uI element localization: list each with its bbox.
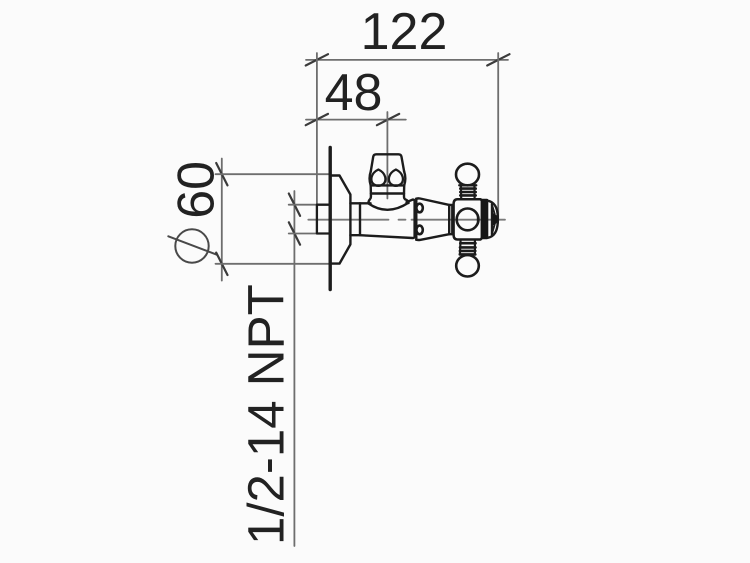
tick top of thread callout [289, 194, 300, 216]
handle hub block [454, 199, 484, 239]
tick right of 48 [377, 114, 399, 125]
extension line dia60 top [216, 173, 331, 175]
dimension 48 line [306, 119, 406, 121]
handle bottom neck sides [460, 240, 475, 255]
bonnet ring face [415, 199, 417, 240]
neck between flange and body [350, 203, 360, 235]
tick bottom of thread callout [289, 222, 300, 244]
tick left of 122 [306, 54, 328, 65]
handle bottom neck ribs [460, 243, 476, 254]
aerator left side bulge [370, 171, 371, 185]
tick top of dia60 [216, 163, 227, 185]
bonnet end washer [449, 205, 452, 234]
handle top neck sides [461, 185, 475, 198]
screw bottom [416, 226, 422, 235]
extension line dia60 bottom [216, 263, 332, 265]
svg-text:1/2-14 NPT: 1/2-14 NPT [238, 284, 295, 545]
handle cap dark band [481, 199, 489, 240]
handle cap dome inner line [491, 204, 493, 235]
extension line pipe bottom [289, 233, 317, 235]
svg-text:48: 48 [325, 64, 383, 122]
aerator collar [371, 185, 405, 193]
handle front boss circle [457, 209, 479, 231]
aerator bell flare [368, 194, 408, 210]
tick left of 48 [306, 114, 328, 125]
valve body taper [360, 200, 415, 238]
centerline [308, 219, 505, 221]
extension line aerator axis [386, 112, 388, 199]
thread callout leader line [293, 191, 295, 546]
inlet pipe 1/2-14 NPT nipple [317, 205, 330, 234]
aerator left circle [371, 170, 385, 186]
svg-text:122: 122 [361, 3, 448, 61]
handle cap facet top [492, 205, 495, 214]
bonnet taper [416, 198, 449, 240]
handle cap dome [488, 201, 498, 238]
handle top neck junction [459, 184, 476, 186]
extension line handle tip [497, 53, 499, 218]
wall line [329, 148, 332, 290]
handle top neck ribs [460, 189, 475, 196]
tick bottom of dia60 [216, 253, 227, 275]
handle cap dark tip [492, 213, 497, 225]
wall flange [331, 176, 351, 264]
svg-text:60: 60 [168, 161, 226, 219]
aerator right side bulge [404, 171, 405, 185]
tick right of 122 [487, 54, 509, 65]
screw top [416, 204, 422, 213]
aerator spout top [371, 154, 404, 171]
handle top sphere [456, 164, 479, 186]
extension line left (pipe end face) [316, 53, 318, 204]
handle cap facet bottom [492, 225, 495, 234]
boss pinch to cap [477, 215, 479, 224]
aerator right circle [389, 170, 403, 186]
handle bottom sphere [456, 255, 479, 276]
extension line pipe top [289, 204, 317, 206]
dimension dia60 line [221, 159, 223, 281]
dimension 122 line [306, 59, 508, 61]
